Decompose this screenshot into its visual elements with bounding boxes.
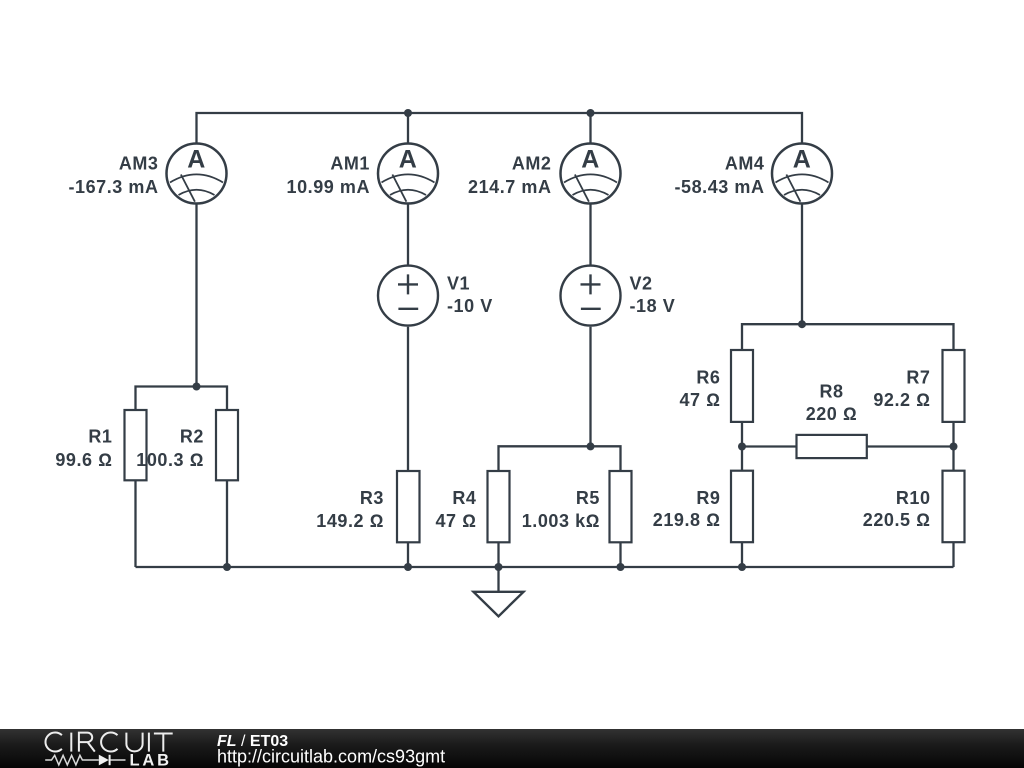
resistor R7 [943, 350, 965, 422]
wire V2 down to R4-R5 rail [589, 327, 591, 447]
svg-text:A: A [399, 146, 418, 174]
svg-text:R6: R6 [696, 368, 720, 388]
svg-text:R8: R8 [819, 382, 843, 402]
svg-text:R5: R5 [576, 488, 600, 508]
wire R6 bottom to mid node [741, 422, 743, 471]
wire mid rail left to R8 [742, 445, 797, 447]
wire AM3 bottom to node A [195, 205, 197, 387]
wire bottom rail [136, 566, 954, 568]
ammeter AM1 [378, 144, 438, 204]
svg-text:R3: R3 [360, 488, 384, 508]
node top rail AM1 [404, 109, 412, 117]
resistor R9 [731, 471, 753, 543]
wire R10 bottom leg [952, 542, 954, 567]
resistor R4 [488, 471, 510, 542]
voltage source V1 [378, 266, 438, 326]
node V2 R4 R5 rail [587, 442, 595, 450]
svg-text:-10 V: -10 V [447, 296, 493, 316]
resistor R1 [125, 410, 147, 480]
resistor R5 [610, 471, 632, 542]
node bottom R2 [223, 563, 231, 571]
svg-text:R1: R1 [88, 427, 112, 447]
svg-text:http://circuitlab.com/cs93gmt: http://circuitlab.com/cs93gmt [217, 747, 445, 767]
svg-text:220.5 Ω: 220.5 Ω [863, 510, 931, 530]
svg-text:A: A [793, 146, 812, 174]
svg-text:-18 V: -18 V [630, 296, 676, 316]
svg-text:R7: R7 [906, 368, 930, 388]
ground [474, 567, 524, 616]
wire AM2 top stem [589, 113, 591, 143]
wire R1 bottom leg to bottom rail [134, 480, 136, 567]
logo resistor zigzag [45, 755, 99, 765]
node R1 R2 tee [193, 383, 201, 391]
wire right top rail R6 to R7 [742, 324, 954, 350]
svg-text:V1: V1 [447, 273, 470, 293]
node AM4 right rail [798, 320, 806, 328]
svg-text:92.2 Ω: 92.2 Ω [873, 390, 930, 410]
wire R4 R5 top rail [499, 446, 621, 471]
footer bar [0, 729, 1024, 768]
svg-text:R2: R2 [180, 427, 204, 447]
svg-text:LAB: LAB [130, 752, 172, 768]
ammeter AM3 [167, 144, 227, 204]
node R7 R10 mid [950, 443, 958, 451]
node bottom R3 [404, 563, 412, 571]
wire R7 bottom to mid node [952, 422, 954, 471]
svg-text:V2: V2 [630, 273, 653, 293]
resistor R2 [216, 410, 238, 480]
svg-text:214.7 mA: 214.7 mA [468, 177, 551, 197]
wire R8 to right mid node [867, 445, 954, 447]
svg-text:A: A [187, 146, 206, 174]
wire R2 bottom leg [226, 480, 228, 567]
svg-text:1.003 kΩ: 1.003 kΩ [522, 511, 600, 531]
wire top rail from AM3 to AM4 [197, 113, 803, 143]
wire AM1 top stem [407, 113, 409, 143]
wire AM1 to V1 [407, 205, 409, 265]
wire V1 to R3 [407, 327, 409, 471]
svg-text:A: A [581, 146, 600, 174]
svg-text:-58.43 mA: -58.43 mA [675, 177, 765, 197]
node bottom R5 [617, 563, 625, 571]
svg-text:AM2: AM2 [512, 154, 552, 174]
logo diode [99, 755, 109, 766]
node R6 R9 mid [738, 443, 746, 451]
svg-text:219.8 Ω: 219.8 Ω [653, 510, 721, 530]
ammeter AM2 [561, 144, 621, 204]
svg-text:AM1: AM1 [330, 154, 370, 174]
svg-text:100.3 Ω: 100.3 Ω [136, 450, 204, 470]
wire AM2 to V2 [589, 205, 591, 265]
svg-text:47 Ω: 47 Ω [435, 511, 476, 531]
svg-text:R10: R10 [896, 488, 931, 508]
svg-text:220 Ω: 220 Ω [806, 404, 858, 424]
ammeter AM4 [772, 144, 832, 204]
wire AM4 bottom stem [801, 205, 803, 325]
wire R3 bottom leg [407, 542, 409, 567]
svg-text:R9: R9 [696, 488, 720, 508]
voltage source V2 [561, 266, 621, 326]
svg-text:-167.3 mA: -167.3 mA [69, 177, 159, 197]
wire R9 bottom leg [741, 542, 743, 567]
wire R5 bottom leg [619, 542, 621, 567]
wire R4 bottom leg [497, 542, 499, 567]
svg-text:AM4: AM4 [725, 154, 765, 174]
resistor R6 [731, 350, 753, 422]
svg-text:99.6 Ω: 99.6 Ω [55, 450, 112, 470]
node bottom ground [495, 563, 503, 571]
wire R1 R2 top tee [136, 387, 228, 411]
logo CIRCUIT lettering [45, 733, 172, 752]
resistor R10 [943, 471, 965, 543]
svg-text:47 Ω: 47 Ω [679, 390, 720, 410]
svg-text:149.2 Ω: 149.2 Ω [316, 511, 384, 531]
svg-text:AM3: AM3 [119, 154, 159, 174]
svg-text:R4: R4 [452, 488, 476, 508]
node top rail AM2 [587, 109, 595, 117]
resistor R3 [397, 471, 420, 542]
resistor R8 [797, 435, 867, 458]
svg-text:10.99 mA: 10.99 mA [287, 177, 370, 197]
node bottom R9 [738, 563, 746, 571]
